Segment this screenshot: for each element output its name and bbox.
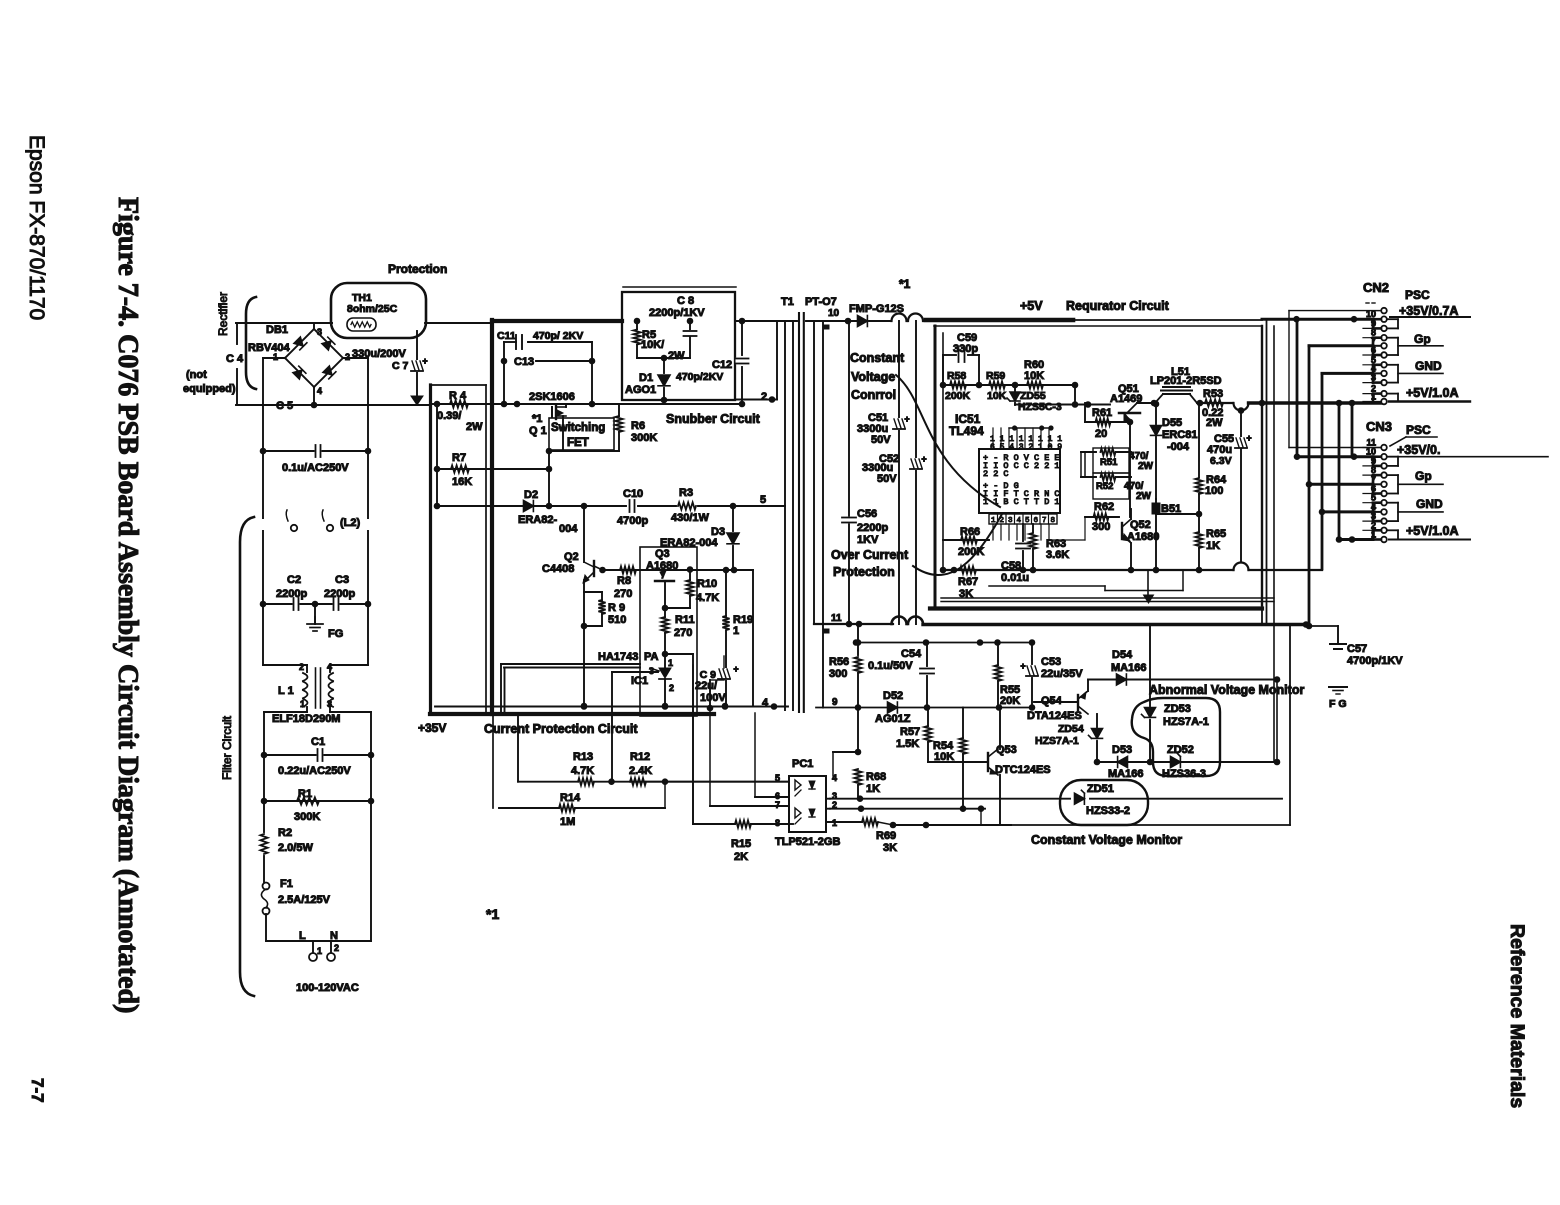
svg-text:270: 270	[614, 588, 632, 600]
wire top secondary to FMP diode	[806, 320, 857, 322]
svg-text:Q54: Q54	[1041, 695, 1063, 707]
svg-text:1K: 1K	[866, 783, 880, 795]
svg-text:AGO1: AGO1	[625, 384, 656, 396]
svg-text:Q3: Q3	[655, 548, 670, 560]
svg-text:470p/ 2KV: 470p/ 2KV	[533, 330, 583, 342]
svg-text:L 1: L 1	[278, 685, 294, 697]
svg-text:FET: FET	[567, 437, 589, 449]
svg-text:Filter Circuit: Filter Circuit	[220, 715, 234, 780]
svg-text:10K: 10K	[987, 390, 1007, 402]
resistors R51 R52 470/2W	[1093, 448, 1129, 473]
svg-text:AG01Z: AG01Z	[875, 713, 911, 725]
svg-text:Constant: Constant	[850, 351, 905, 365]
regulator internal ground rail	[943, 569, 1199, 571]
wire TH1 to C7 node	[236, 322, 332, 324]
svg-text:(L2): (L2)	[340, 517, 361, 529]
wire ZD55 to Q51	[1015, 404, 1110, 406]
svg-text:C1: C1	[311, 736, 325, 748]
svg-text:C 8: C 8	[677, 295, 694, 307]
wire PC1 pin7	[710, 805, 789, 807]
svg-text:R15: R15	[731, 838, 751, 850]
terminal 2	[330, 941, 332, 952]
svg-text:200K: 200K	[945, 390, 971, 402]
wire monitor bottom rail	[894, 824, 1011, 826]
svg-text:ERC81: ERC81	[1162, 429, 1197, 441]
abnormal monitor blob	[1132, 698, 1220, 776]
svg-text:DTA124ES: DTA124ES	[1027, 710, 1082, 722]
svg-text:D53: D53	[1112, 744, 1132, 756]
thermistor TH1 protection box	[331, 283, 426, 338]
svg-text:10: 10	[828, 308, 840, 319]
svg-text:1 1 B C T T D 1: 1 1 B C T T D 1	[983, 497, 1060, 507]
wire rails to filter	[262, 358, 264, 518]
svg-text:L: L	[299, 930, 306, 942]
svg-text:1: 1	[668, 658, 673, 668]
capacitor C8 2200p internal	[689, 321, 691, 330]
svg-text:1: 1	[317, 946, 322, 956]
svg-text:D52: D52	[883, 690, 903, 702]
svg-text:R10: R10	[697, 578, 717, 590]
box around Q3 IC1	[640, 547, 697, 716]
capacitor 0.1u/AC250V	[263, 450, 368, 452]
svg-text:ERA82-: ERA82-	[518, 514, 557, 526]
wire IC1 pin1 to R15 net	[665, 653, 693, 655]
svg-text:C12: C12	[712, 359, 732, 371]
svg-text:2: 2	[345, 352, 350, 362]
svg-text:4.7K: 4.7K	[571, 765, 594, 777]
svg-text:HZS7A-1: HZS7A-1	[1163, 716, 1209, 728]
svg-text:DTC124ES: DTC124ES	[995, 764, 1051, 776]
svg-text:F1: F1	[280, 878, 293, 890]
svg-text:R 9: R 9	[608, 602, 625, 614]
svg-text:R68: R68	[866, 771, 886, 783]
svg-text:R13: R13	[573, 751, 593, 763]
svg-text:Gp: Gp	[1414, 332, 1431, 346]
svg-text:510: 510	[608, 614, 626, 626]
svg-text:4: 4	[762, 697, 769, 709]
svg-text:PC1: PC1	[792, 758, 813, 770]
filter bracket	[240, 517, 254, 996]
transformer secondary vertical 11	[813, 321, 815, 624]
inductor bumps on 11 rail	[892, 617, 907, 624]
svg-text:C57: C57	[1347, 643, 1367, 655]
wire bridge connections	[313, 324, 315, 329]
svg-text:3: 3	[317, 327, 322, 337]
svg-text:Voltage: Voltage	[851, 370, 895, 384]
regulator bottom rails	[941, 597, 1274, 599]
svg-text:+5V/1.0A: +5V/1.0A	[1406, 524, 1458, 538]
svg-text:4700p: 4700p	[617, 515, 648, 527]
svg-text:PT-O7: PT-O7	[805, 296, 837, 308]
svg-text:300: 300	[829, 668, 847, 680]
svg-text:Q2: Q2	[564, 551, 579, 563]
svg-text:430/1W: 430/1W	[671, 512, 710, 524]
wire AC top	[236, 322, 332, 324]
svg-text:HZS7A-1: HZS7A-1	[1035, 735, 1079, 747]
svg-text:Gp: Gp	[1415, 469, 1432, 483]
svg-text:11: 11	[831, 613, 842, 624]
inductor bumps on +5V input	[892, 314, 907, 321]
diode B51	[1152, 503, 1160, 514]
svg-text:2200p: 2200p	[857, 522, 888, 534]
svg-text:2200p/1KV: 2200p/1KV	[649, 307, 705, 319]
svg-text:16K: 16K	[452, 476, 472, 488]
svg-text:+35V: +35V	[418, 721, 446, 735]
capacitor C57 4700p/1KV	[1306, 625, 1338, 627]
regulator box	[926, 318, 1073, 323]
svg-text:C54: C54	[901, 648, 922, 660]
svg-text:ELF18D290M: ELF18D290M	[272, 713, 340, 725]
svg-text:0.39/: 0.39/	[437, 410, 461, 422]
svg-text:2: 2	[669, 683, 674, 693]
svg-text:HA1743: HA1743	[598, 651, 638, 663]
svg-text:D2: D2	[524, 489, 538, 501]
svg-text:2: 2	[299, 662, 304, 672]
svg-text:4: 4	[317, 386, 322, 396]
svg-text:2SK1606: 2SK1606	[529, 391, 575, 403]
svg-text:Conrrol: Conrrol	[851, 388, 896, 402]
svg-text:100: 100	[1205, 485, 1223, 497]
svg-text:2: 2	[832, 800, 837, 810]
svg-text:Switching: Switching	[551, 422, 605, 434]
svg-text:1: 1	[733, 625, 739, 637]
svg-text:+: +	[733, 664, 738, 674]
svg-text:CN3: CN3	[1366, 419, 1392, 434]
svg-text:DB1: DB1	[266, 324, 288, 336]
wire IC1 pin3 left	[612, 671, 658, 673]
svg-text:PSC: PSC	[1405, 288, 1430, 302]
svg-text:2: 2	[761, 391, 767, 403]
svg-text:0.01u: 0.01u	[1001, 572, 1029, 584]
svg-text:ZD52: ZD52	[1167, 744, 1194, 756]
svg-text:2: 2	[334, 943, 339, 953]
svg-text:T1: T1	[781, 296, 794, 308]
svg-text:MA166: MA166	[1108, 768, 1143, 780]
transformer secondary vertical 9	[822, 321, 824, 708]
svg-text:C56: C56	[857, 508, 877, 520]
svg-text:8: 8	[1051, 517, 1056, 525]
svg-text:Abnormal Voltage Monitor: Abnormal Voltage Monitor	[1149, 683, 1304, 697]
resistor R5 10K/2W	[636, 321, 638, 329]
svg-text:2.4K: 2.4K	[629, 765, 652, 777]
svg-text:3K: 3K	[959, 588, 973, 600]
wire R5/C8 join	[637, 357, 690, 359]
frame ground FG right	[1329, 686, 1347, 688]
svg-text:Figure 7-4. C076 PSB Board As: Figure 7-4. C076 PSB Board Assembly Circ…	[112, 197, 143, 1013]
svg-text:2K: 2K	[734, 851, 748, 863]
svg-text:50V: 50V	[877, 473, 897, 485]
svg-text:Current Protection Circuit: Current Protection Circuit	[484, 722, 638, 736]
svg-text:004: 004	[559, 523, 578, 535]
zener ZD51	[830, 798, 1070, 800]
svg-text:2 2 C: 2 2 C	[983, 469, 1009, 479]
svg-text:R3: R3	[679, 487, 693, 499]
CN3 PSC link	[1406, 436, 1437, 438]
svg-text:1M: 1M	[560, 816, 575, 828]
svg-text:6: 6	[1034, 517, 1039, 525]
svg-text:HZS36-3: HZS36-3	[1162, 768, 1206, 780]
wire PC1 pin4 to R68	[832, 752, 834, 776]
svg-text:7: 7	[1042, 517, 1047, 525]
svg-text:FG: FG	[328, 628, 343, 640]
svg-text:20: 20	[1095, 428, 1107, 440]
svg-text:D55: D55	[1162, 417, 1182, 429]
svg-text:200K: 200K	[958, 546, 984, 558]
wire PC1 pin3 net	[826, 798, 830, 800]
svg-text:PA: PA	[644, 651, 659, 663]
svg-text:R61: R61	[1092, 407, 1112, 419]
svg-text:Rectifier: Rectifier	[216, 292, 230, 336]
svg-text:Q 1: Q 1	[529, 425, 547, 437]
svg-text:10K/: 10K/	[641, 339, 664, 351]
svg-text:300: 300	[1092, 521, 1110, 533]
wire R64 tap	[1156, 513, 1199, 515]
svg-text:2200p: 2200p	[324, 588, 355, 600]
svg-text:*1: *1	[486, 906, 499, 922]
svg-text:1: 1	[832, 818, 837, 828]
svg-text:2W: 2W	[466, 421, 483, 433]
stadium ZD51 HZS33-2	[1060, 780, 1148, 825]
svg-text:LP201-2R5SD: LP201-2R5SD	[1150, 375, 1222, 387]
svg-text:+: +	[904, 414, 909, 424]
svg-text:10K: 10K	[1024, 370, 1044, 382]
capacitor C13	[501, 358, 508, 365]
svg-text:F G: F G	[1329, 698, 1347, 710]
svg-text:2W: 2W	[1138, 461, 1154, 472]
svg-text:+: +	[921, 454, 926, 464]
svg-text:C13: C13	[514, 356, 534, 368]
svg-text:20K: 20K	[1000, 695, 1020, 707]
svg-text:MA166: MA166	[1111, 662, 1146, 674]
svg-text:+5V: +5V	[1020, 299, 1043, 313]
svg-text:Reference Materials: Reference Materials	[1506, 924, 1528, 1108]
wire top rail y642	[856, 642, 1034, 644]
svg-text:300K: 300K	[294, 811, 320, 823]
wire Q3 emitter rail	[603, 569, 754, 571]
svg-text:+: +	[1020, 661, 1025, 671]
svg-text:0.22u/AC250V: 0.22u/AC250V	[278, 765, 351, 777]
svg-text:R6: R6	[631, 420, 645, 432]
svg-text:0.1u/AC250V: 0.1u/AC250V	[282, 462, 349, 474]
wire +35V top link	[1073, 319, 1262, 321]
svg-text:470p/2KV: 470p/2KV	[676, 371, 723, 383]
svg-text:Over Current: Over Current	[831, 548, 909, 562]
svg-text:C53: C53	[1041, 656, 1061, 668]
svg-text:D54: D54	[1112, 649, 1133, 661]
wire FET source	[549, 450, 619, 452]
svg-text:Q52: Q52	[1130, 519, 1151, 531]
svg-text:C10: C10	[623, 488, 643, 500]
svg-text:GND: GND	[1416, 497, 1443, 511]
wire filter box upper	[262, 531, 264, 665]
monitor box	[1289, 626, 1291, 825]
CN2 left feed wires	[1289, 310, 1381, 312]
wire D54 node vertical	[1276, 680, 1278, 763]
box around R4 R7	[431, 384, 486, 386]
svg-text:C 5: C 5	[276, 400, 293, 412]
svg-text:C 4: C 4	[226, 353, 244, 365]
svg-text:D1: D1	[639, 372, 653, 384]
svg-text:9: 9	[832, 697, 838, 708]
svg-text:6 5 4 3 2 1 0 9: 6 5 4 3 2 1 0 9	[990, 443, 1062, 452]
svg-text:C 7: C 7	[392, 360, 409, 372]
svg-text:C4408: C4408	[542, 563, 574, 575]
transformer core	[798, 313, 800, 712]
svg-text:ZD54: ZD54	[1058, 723, 1084, 735]
+5V bus to CN2	[1234, 403, 1249, 411]
svg-text:+35V/0.: +35V/0.	[1397, 443, 1440, 457]
transformer primary vertical 5	[784, 321, 786, 710]
svg-text:R2: R2	[278, 827, 292, 839]
svg-text:PSC: PSC	[1406, 423, 1431, 437]
resistor R67 3K	[960, 566, 976, 573]
svg-text:R57: R57	[900, 726, 920, 738]
svg-text:22u/: 22u/	[695, 680, 717, 692]
svg-text:C3: C3	[335, 574, 349, 586]
rectifier bracket	[246, 297, 256, 389]
svg-text:Protection: Protection	[388, 262, 447, 276]
svg-text:22u/35V: 22u/35V	[1041, 668, 1083, 680]
svg-text:R14: R14	[560, 792, 581, 804]
svg-text:8: 8	[775, 818, 780, 828]
wire PC1 pin6	[755, 796, 789, 798]
main dc wire to snubber	[431, 403, 622, 405]
svg-text:1.5K: 1.5K	[896, 738, 919, 750]
svg-text:+: +	[1246, 433, 1251, 443]
svg-text:TLP521-2GB: TLP521-2GB	[775, 836, 840, 848]
svg-text:R62: R62	[1094, 501, 1114, 513]
svg-text:+5V/1.0A: +5V/1.0A	[1406, 386, 1458, 400]
svg-text:(not: (not	[186, 369, 207, 381]
svg-text:2W: 2W	[1206, 417, 1223, 429]
svg-text:HZS33-2: HZS33-2	[1086, 805, 1130, 817]
svg-text:1: 1	[273, 352, 278, 362]
transformer primary vertical	[792, 321, 794, 710]
svg-text:GND: GND	[1415, 359, 1442, 373]
svg-text:2: 2	[1000, 517, 1005, 525]
thick top bus of switch box	[492, 319, 622, 323]
svg-text:270: 270	[674, 627, 692, 639]
svg-text:IC1: IC1	[631, 675, 648, 687]
wire C12 bottom node	[622, 403, 742, 405]
svg-text:R7: R7	[452, 452, 466, 464]
wire pin2 net	[830, 808, 985, 810]
svg-text:R51: R51	[1100, 457, 1118, 468]
svg-text:1K: 1K	[1206, 540, 1220, 552]
svg-text:R67: R67	[958, 576, 978, 588]
svg-text:R52: R52	[1096, 481, 1113, 492]
svg-text:TL494: TL494	[949, 424, 984, 438]
svg-text:2W: 2W	[1136, 491, 1152, 502]
wire FMP node down to 11	[848, 321, 850, 624]
svg-text:Snubber Circuit: Snubber Circuit	[666, 412, 761, 426]
annotation curve to IC51	[896, 375, 1000, 507]
svg-text:C11: C11	[497, 330, 516, 342]
svg-text:-004: -004	[1167, 441, 1190, 453]
wire PC1 pin8	[788, 823, 793, 825]
svg-text:6.3V: 6.3V	[1210, 455, 1232, 467]
svg-text:R8: R8	[617, 575, 631, 587]
wire filter box lower	[264, 711, 307, 713]
svg-text:ZD51: ZD51	[1087, 783, 1114, 795]
wire top primary	[735, 320, 797, 322]
transformer primary vertical 2	[776, 321, 778, 400]
terminal 1	[312, 941, 314, 952]
svg-text:2200p: 2200p	[276, 588, 307, 600]
svg-text:5: 5	[1025, 517, 1030, 525]
wire filter bottom	[266, 940, 371, 942]
svg-text:8ohm/25C: 8ohm/25C	[347, 303, 398, 315]
bottom wire of protection box node 4	[435, 706, 788, 708]
chip pin stubs bottom	[992, 524, 994, 540]
svg-text:3K: 3K	[883, 842, 897, 854]
wire PC1 pin2 net	[826, 808, 830, 810]
wires to box left	[501, 663, 640, 665]
svg-text:*1: *1	[532, 413, 542, 425]
wire PC1 pin5	[630, 781, 789, 783]
current protection outer box thick left	[490, 320, 494, 714]
inner box bottom	[989, 585, 1105, 587]
svg-text:A1680: A1680	[1127, 531, 1159, 543]
svg-text:2W: 2W	[668, 350, 685, 362]
svg-text:R56: R56	[829, 656, 849, 668]
svg-text:7-7: 7-7	[28, 1078, 47, 1103]
svg-text:0.1u/50V: 0.1u/50V	[868, 660, 913, 672]
resistor R8 270	[599, 567, 606, 574]
svg-text:R12: R12	[630, 751, 650, 763]
snubber box C8	[623, 286, 736, 288]
svg-text:100V: 100V	[700, 692, 726, 704]
svg-text:2.0/5W: 2.0/5W	[278, 842, 313, 854]
vertical bus bundle to connectors	[1261, 326, 1263, 625]
svg-text:HZS5C-3: HZS5C-3	[1018, 401, 1062, 413]
svg-text:Constant Voltage Monitor: Constant Voltage Monitor	[1031, 833, 1182, 847]
svg-text:Epson FX-870/1170: Epson FX-870/1170	[25, 135, 48, 320]
svg-text:Requrator Circuit: Requrator Circuit	[1066, 299, 1170, 313]
svg-text:5: 5	[760, 494, 766, 506]
svg-text:*1: *1	[899, 277, 911, 291]
svg-text:100-120VAC: 100-120VAC	[296, 982, 359, 994]
svg-text:C2: C2	[287, 574, 301, 586]
svg-text:Protection: Protection	[833, 565, 895, 579]
ground FG	[314, 604, 316, 624]
svg-text:50V: 50V	[871, 434, 891, 446]
svg-text:R11: R11	[675, 614, 695, 626]
svg-text:RBV404: RBV404	[248, 342, 290, 354]
svg-text:CN2: CN2	[1363, 280, 1389, 295]
svg-text:2.5A/125V: 2.5A/125V	[278, 894, 331, 906]
svg-text:ZD53: ZD53	[1164, 703, 1191, 715]
svg-text:1KV: 1KV	[857, 534, 879, 546]
svg-text:R65: R65	[1206, 528, 1226, 540]
svg-text:4700p/1KV: 4700p/1KV	[1347, 655, 1403, 667]
CN3 left feed wires	[1289, 447, 1381, 449]
svg-text:330p: 330p	[953, 343, 978, 355]
svg-text:equipped): equipped)	[183, 383, 236, 395]
box around Switching FET label	[549, 418, 614, 450]
svg-text:7: 7	[775, 800, 780, 810]
svg-text:R69: R69	[876, 830, 896, 842]
svg-text:4.7K: 4.7K	[696, 592, 719, 604]
svg-text:+35V/0.7A: +35V/0.7A	[1399, 304, 1458, 318]
svg-text:+: +	[422, 356, 427, 366]
svg-text:3.6K: 3.6K	[1046, 549, 1069, 561]
svg-text:300K: 300K	[631, 432, 657, 444]
